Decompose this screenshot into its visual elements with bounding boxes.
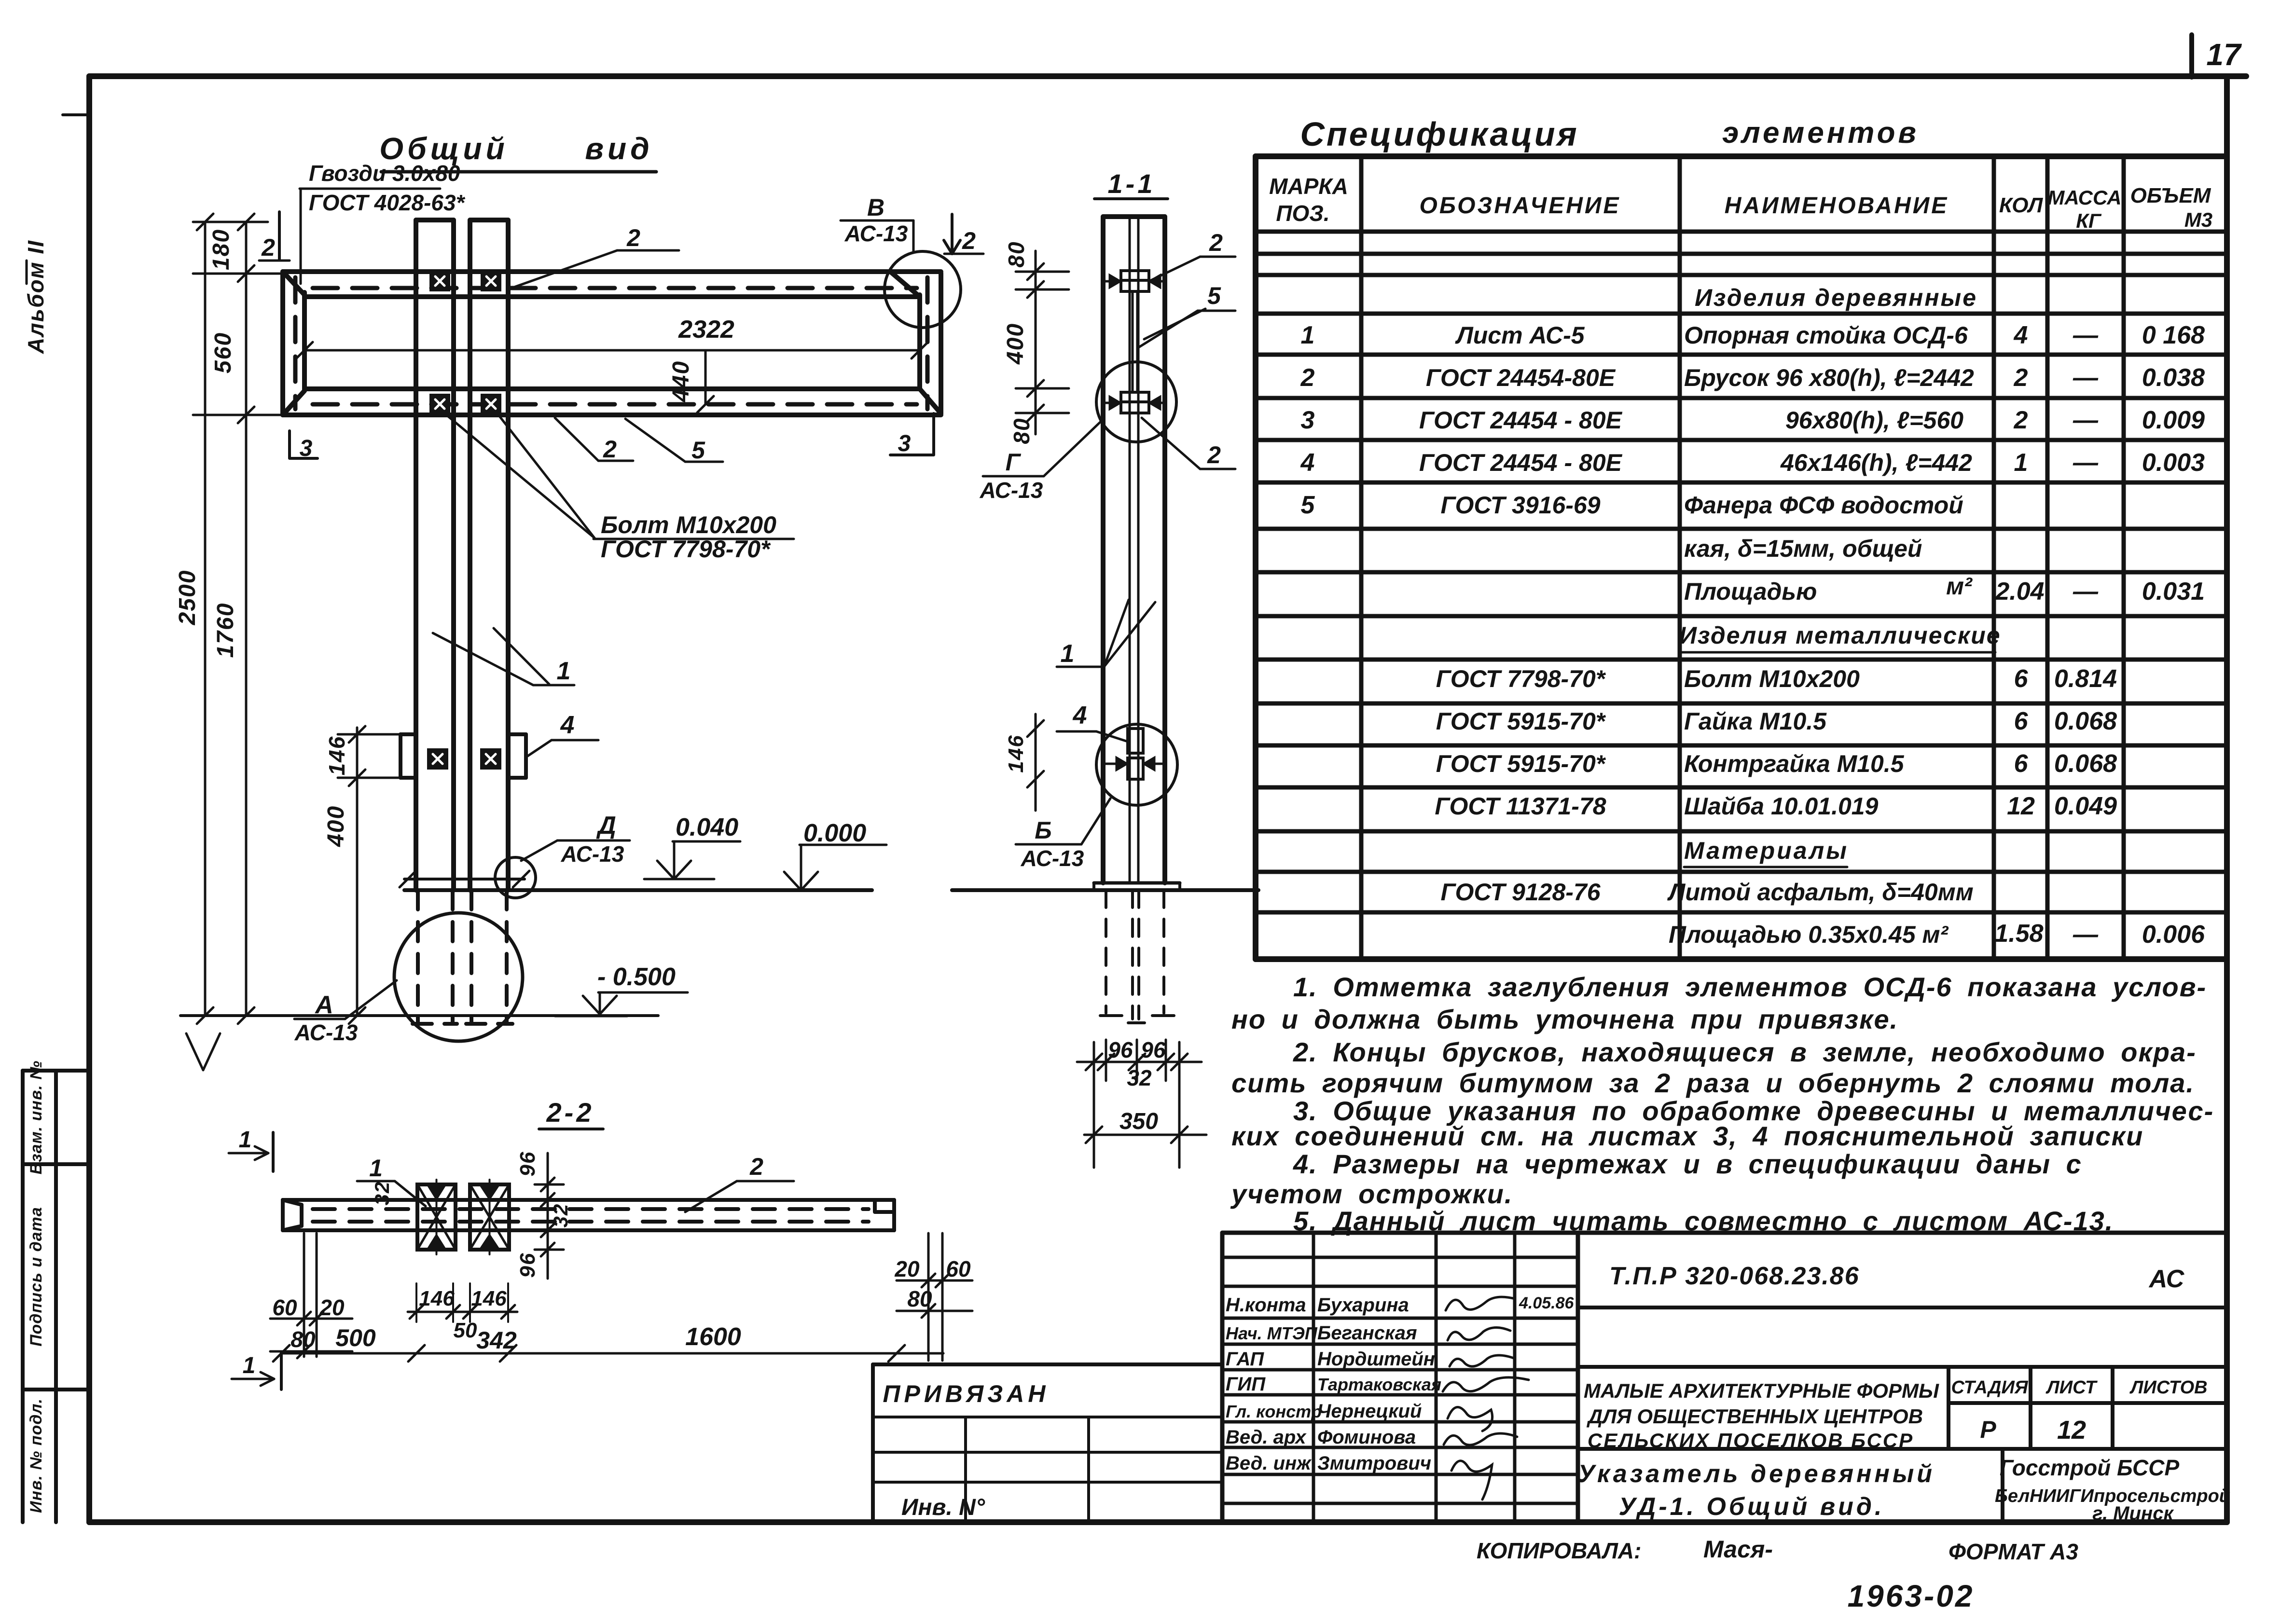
svg-text:6: 6: [2014, 665, 2029, 693]
svg-text:2: 2: [749, 1153, 763, 1180]
svg-text:—: —: [2073, 406, 2099, 434]
section mark 3 (bottom-left): [290, 431, 318, 458]
svg-text:ГОСТ 5915-70*: ГОСТ 5915-70*: [1436, 750, 1606, 777]
svg-text:АС-13: АС-13: [844, 221, 908, 246]
svg-text:32: 32: [549, 1203, 572, 1228]
svg-text:Изделия деревянные: Изделия деревянные: [1695, 284, 1977, 311]
middle bolt assembly: [1121, 392, 1149, 402]
svg-text:0.009: 0.009: [2142, 406, 2205, 434]
svg-text:ГОСТ 4028-63*: ГОСТ 4028-63*: [309, 190, 466, 215]
svg-text:ГОСТ 7798-70*: ГОСТ 7798-70*: [601, 536, 771, 563]
svg-text:ГИП: ГИП: [1226, 1374, 1266, 1395]
svg-text:20: 20: [894, 1256, 920, 1281]
svg-text:Н.конта: Н.конта: [1226, 1294, 1306, 1316]
svg-text:350: 350: [1119, 1109, 1158, 1134]
svg-text:Р: Р: [1980, 1416, 1996, 1443]
svg-text:20: 20: [319, 1295, 345, 1320]
svg-text:1760: 1760: [213, 603, 238, 658]
svg-text:80: 80: [290, 1327, 316, 1352]
base plate: [1094, 881, 1180, 885]
svg-text:Площадью 0.35х0.45 м²: Площадью 0.35х0.45 м²: [1669, 921, 1949, 948]
svg-text:Б: Б: [1035, 817, 1051, 844]
svg-text:МАЛЫЕ АРХИТЕКТУРНЫЕ ФОРМЫ: МАЛЫЕ АРХИТЕКТУРНЫЕ ФОРМЫ: [1584, 1379, 1939, 1402]
svg-text:АС: АС: [2148, 1265, 2185, 1293]
svg-text:СТАДИЯ: СТАДИЯ: [1951, 1377, 2028, 1398]
spec table grid: [1256, 156, 2227, 959]
svg-text:ОБОЗНАЧЕНИЕ: ОБОЗНАЧЕНИЕ: [1419, 193, 1620, 219]
svg-text:г. Минск: г. Минск: [2092, 1503, 2174, 1524]
section dim chain 80/400/80: [1016, 251, 1069, 434]
svg-text:Гл. констр: Гл. констр: [1226, 1402, 1322, 1421]
svg-text:0 168: 0 168: [2142, 321, 2205, 349]
svg-text:МАРКА: МАРКА: [1269, 174, 1348, 199]
svg-text:400: 400: [1003, 323, 1028, 365]
svg-text:ГОСТ 24454 - 80Е: ГОСТ 24454 - 80Е: [1419, 407, 1623, 434]
svg-text:4: 4: [560, 711, 575, 739]
svg-text:МАССА: МАССА: [2047, 186, 2121, 209]
svg-text:ких соединений см. на лист: ких соединений см. на листах 3, 4 поясни…: [1231, 1121, 2143, 1151]
svg-text:4: 4: [1073, 702, 1087, 729]
level line -0.500: [180, 1014, 658, 1017]
svg-text:2500: 2500: [175, 570, 200, 626]
svg-text:Вед. арх: Вед. арх: [1226, 1427, 1307, 1448]
svg-text:ГОСТ 5915-70*: ГОСТ 5915-70*: [1436, 708, 1606, 735]
svg-text:2: 2: [962, 227, 976, 254]
detail circle Б: [1096, 724, 1177, 805]
svg-text:м²: м²: [1946, 573, 1973, 600]
svg-text:АС-13: АС-13: [1021, 846, 1084, 871]
svg-text:3: 3: [1301, 406, 1315, 434]
svg-text:ГОСТ 7798-70*: ГОСТ 7798-70*: [1436, 665, 1606, 692]
svg-text:НАИМЕНОВАНИЕ: НАИМЕНОВАНИЕ: [1725, 193, 1949, 219]
svg-text:342: 342: [476, 1327, 517, 1354]
svg-text:учетом острожки.: учетом острожки.: [1230, 1179, 1513, 1209]
svg-text:60: 60: [946, 1256, 971, 1281]
svg-text:ГАП: ГАП: [1226, 1349, 1264, 1370]
ground line: [404, 888, 872, 892]
svg-text:96х80(h), ℓ=560: 96х80(h), ℓ=560: [1785, 407, 1963, 434]
sign board frame (позиция 2 bars): [283, 272, 941, 415]
2-2 vertical dims 96/32/96 right of posts: [535, 1153, 564, 1279]
svg-text:Взам. инв. №: Взам. инв. №: [27, 1060, 45, 1175]
dim line 2500: [193, 222, 283, 1016]
svg-text:0.003: 0.003: [2142, 449, 2205, 477]
svg-text:А: А: [314, 991, 333, 1019]
svg-text:Брусок 96 х80(h), ℓ=2442: Брусок 96 х80(h), ℓ=2442: [1684, 364, 1974, 391]
dim 146 on section: [1035, 714, 1037, 811]
svg-text:2322: 2322: [678, 316, 734, 344]
svg-text:17: 17: [2206, 37, 2242, 72]
svg-text:КОЛ: КОЛ: [1999, 193, 2043, 217]
svg-text:Инв. № подл.: Инв. № подл.: [27, 1398, 45, 1513]
svg-text:1: 1: [557, 657, 571, 685]
svg-text:1-1: 1-1: [1108, 168, 1156, 199]
svg-text:Чернецкий: Чернецкий: [1317, 1401, 1422, 1422]
svg-text:—: —: [2073, 578, 2099, 606]
svg-text:146: 146: [471, 1287, 507, 1310]
svg-text:ПОЗ.: ПОЗ.: [1276, 201, 1329, 226]
svg-text:Тартаковская: Тартаковская: [1317, 1375, 1441, 1394]
svg-text:32: 32: [371, 1181, 393, 1206]
svg-text:Нач. МТЭП: Нач. МТЭП: [1226, 1323, 1318, 1343]
привязан table: [873, 1364, 1222, 1522]
svg-text:ПРИВЯЗАН: ПРИВЯЗАН: [883, 1380, 1050, 1407]
detail circle В at board right end: [884, 251, 961, 328]
svg-text:96: 96: [516, 1151, 539, 1177]
svg-text:0.031: 0.031: [2142, 578, 2205, 606]
svg-text:—: —: [2073, 321, 2099, 349]
left margin stamp boxes: [23, 1071, 89, 1522]
svg-text:1: 1: [2014, 449, 2028, 477]
svg-text:КГ: КГ: [2076, 209, 2102, 232]
svg-text:2: 2: [1207, 441, 1221, 468]
svg-text:3: 3: [300, 436, 313, 461]
svg-text:ГОСТ 24454-80Е: ГОСТ 24454-80Е: [1426, 364, 1616, 391]
svg-text:2: 2: [1300, 364, 1315, 392]
svg-text:96: 96: [1108, 1037, 1133, 1062]
svg-text:0.814: 0.814: [2054, 665, 2117, 693]
svg-text:Д: Д: [596, 812, 616, 840]
batten поз.4: [401, 734, 526, 778]
svg-text:АС-13: АС-13: [294, 1020, 358, 1045]
svg-text:0.049: 0.049: [2054, 792, 2117, 820]
svg-text:1: 1: [239, 1127, 252, 1153]
svg-text:46х146(h), ℓ=442: 46х146(h), ℓ=442: [1780, 449, 1972, 476]
svg-text:Бухарина: Бухарина: [1317, 1294, 1409, 1316]
svg-text:4.05.86: 4.05.86: [1519, 1294, 1575, 1312]
svg-text:УД-1. Общий вид.: УД-1. Общий вид.: [1619, 1493, 1885, 1521]
svg-text:1. Отметка заглубления элемент: 1. Отметка заглубления элементов ОСД-6 п…: [1293, 972, 2207, 1002]
svg-text:Фанера ФСФ водостой: Фанера ФСФ водостой: [1684, 492, 1963, 519]
svg-text:элементов: элементов: [1722, 116, 1919, 150]
svg-text:Болт М10х200: Болт М10х200: [601, 511, 776, 538]
svg-text:4: 4: [2014, 321, 2028, 349]
section mark 2 (top-right, arrow down): [951, 214, 953, 253]
asphalt top line over posts: [404, 878, 525, 881]
svg-text:Изделия металлические: Изделия металлические: [1679, 622, 2001, 649]
svg-text:Вед. инж: Вед. инж: [1226, 1453, 1312, 1474]
section underground dashed: [1106, 890, 1164, 1019]
svg-text:Беганская: Беганская: [1317, 1322, 1417, 1344]
svg-text:кая, δ=15мм, общей: кая, δ=15мм, общей: [1684, 535, 1922, 562]
svg-text:0.038: 0.038: [2142, 364, 2205, 392]
svg-text:3: 3: [898, 431, 911, 456]
svg-text:Гайка М10.5: Гайка М10.5: [1684, 708, 1827, 735]
svg-text:СЕЛЬСКИХ ПОСЕЛКОВ БССР: СЕЛЬСКИХ ПОСЕЛКОВ БССР: [1588, 1429, 1914, 1452]
svg-text:2. Концы брусков, находящиеся: 2. Концы брусков, находящиеся в земле, н…: [1293, 1037, 2197, 1067]
svg-text:Фоминова: Фоминова: [1317, 1427, 1416, 1448]
svg-text:Инв. N°: Инв. N°: [901, 1495, 985, 1520]
svg-text:1: 1: [243, 1353, 256, 1378]
top bolt assembly: [1121, 271, 1149, 280]
batten bolts: [428, 750, 447, 768]
svg-text:Контргайка М10.5: Контргайка М10.5: [1684, 750, 1905, 777]
section marks 1 at left of 2-2: [272, 1132, 275, 1171]
detail circle Д: [495, 857, 536, 898]
svg-text:80: 80: [907, 1286, 932, 1311]
svg-text:1600: 1600: [685, 1323, 741, 1351]
posts (стойки поз.1): [416, 220, 508, 890]
svg-text:Мася-: Мася-: [1703, 1536, 1773, 1563]
svg-text:0.006: 0.006: [2142, 921, 2205, 949]
svg-text:50: 50: [454, 1319, 477, 1342]
svg-text:6: 6: [2014, 750, 2029, 778]
2-2 right end dims 20/60/80: [897, 1233, 972, 1361]
svg-text:ГОСТ 11371-78: ГОСТ 11371-78: [1435, 793, 1606, 820]
svg-text:6: 6: [2014, 707, 2029, 735]
svg-text:12: 12: [2007, 792, 2035, 820]
2-2 bottom dim line 500 342 1600: [281, 1352, 943, 1355]
notes text block: [1230, 972, 2214, 1236]
svg-text:4: 4: [1300, 449, 1315, 477]
svg-text:М3: М3: [2184, 208, 2212, 231]
svg-text:1: 1: [1301, 321, 1315, 349]
svg-text:- 0.500: - 0.500: [597, 963, 676, 991]
svg-text:146: 146: [1004, 734, 1028, 772]
svg-text:146: 146: [324, 736, 349, 776]
svg-text:Материалы: Материалы: [1684, 837, 1849, 864]
signatures squiggles: [1443, 1297, 1529, 1500]
section mark 3 (bottom-right): [890, 413, 934, 455]
svg-text:Альбом II: Альбом II: [23, 240, 48, 354]
svg-text:80: 80: [1009, 417, 1034, 444]
svg-text:0.068: 0.068: [2054, 750, 2117, 778]
svg-text:1.58: 1.58: [1994, 920, 2043, 948]
svg-text:4. Размеры на чертежах и: 4. Размеры на чертежах и в спецификации …: [1293, 1149, 2082, 1179]
svg-text:ГОСТ 24454 - 80Е: ГОСТ 24454 - 80Е: [1419, 449, 1623, 476]
svg-text:КОПИРОВАЛА:: КОПИРОВАЛА:: [1477, 1538, 1641, 1563]
svg-text:Г: Г: [1006, 449, 1022, 476]
svg-text:2: 2: [2014, 364, 2028, 392]
svg-text:180: 180: [208, 229, 234, 270]
signature table texts: [1226, 1294, 1441, 1474]
svg-text:2-2: 2-2: [546, 1097, 594, 1128]
svg-text:0.068: 0.068: [2054, 707, 2117, 735]
section 1-1 column: [1103, 217, 1165, 883]
svg-text:но и должна быть уточнена пр: но и должна быть уточнена при привязке.: [1231, 1004, 1898, 1034]
2-2 left end dims 60/20/80: [270, 1233, 352, 1357]
svg-text:В: В: [867, 194, 884, 221]
svg-text:32: 32: [1127, 1065, 1152, 1090]
2-2 dims 146 146: [408, 1311, 517, 1313]
svg-text:1: 1: [1061, 640, 1075, 668]
batten section blocks: [1128, 729, 1143, 753]
svg-text:ОБЪЕМ: ОБЪЕМ: [2130, 184, 2211, 207]
svg-text:—: —: [2073, 921, 2099, 949]
svg-text:5: 5: [1207, 282, 1221, 309]
svg-text:Гвозди 3.0х80: Гвозди 3.0х80: [309, 161, 460, 186]
svg-text:Литой асфальт, δ=40мм: Литой асфальт, δ=40мм: [1667, 879, 1974, 906]
dim 440: [705, 350, 707, 404]
svg-text:2: 2: [626, 224, 640, 251]
svg-text:60: 60: [272, 1295, 297, 1320]
bolts on board: [431, 272, 449, 290]
svg-text:1963-02: 1963-02: [1848, 1579, 1975, 1613]
svg-text:96: 96: [1141, 1037, 1166, 1062]
page number box tick: [2189, 35, 2194, 77]
dim line 146/400: [338, 728, 401, 1016]
svg-text:—: —: [2073, 364, 2099, 392]
svg-text:0.040: 0.040: [676, 813, 738, 841]
svg-text:Площадью: Площадью: [1684, 578, 1817, 605]
svg-text:5: 5: [691, 437, 705, 464]
posts underground (dashed): [413, 890, 512, 1024]
svg-text:ЛИСТОВ: ЛИСТОВ: [2129, 1377, 2207, 1398]
svg-text:2: 2: [2014, 406, 2028, 434]
svg-text:96: 96: [516, 1252, 539, 1278]
svg-text:Болт М10х200: Болт М10х200: [1684, 665, 1860, 692]
svg-text:Змитрович: Змитрович: [1317, 1453, 1431, 1474]
svg-text:АС-13: АС-13: [980, 478, 1043, 503]
svg-text:0.000: 0.000: [803, 819, 866, 847]
svg-text:12: 12: [2057, 1416, 2086, 1445]
svg-text:ГОСТ 3916-69: ГОСТ 3916-69: [1440, 492, 1600, 519]
svg-text:АС-13: АС-13: [561, 841, 624, 867]
svg-text:Опорная стойка ОСД-6: Опорная стойка ОСД-6: [1684, 322, 1968, 349]
svg-text:вид: вид: [585, 131, 653, 166]
svg-text:Госстрой БССР: Госстрой БССР: [2000, 1455, 2180, 1480]
svg-text:ГОСТ 9128-76: ГОСТ 9128-76: [1440, 879, 1601, 906]
svg-text:80: 80: [1004, 241, 1029, 267]
svg-text:ФОРМАТ А3: ФОРМАТ А3: [1948, 1539, 2078, 1564]
svg-text:560: 560: [210, 332, 236, 373]
2-2 bar (brusok seen from top): [283, 1200, 894, 1230]
svg-text:—: —: [2073, 449, 2099, 477]
svg-text:2: 2: [603, 436, 617, 463]
svg-text:Шайба 10.01.019: Шайба 10.01.019: [1684, 793, 1879, 820]
2-2 post cross-sections with hatch: [417, 1184, 456, 1250]
svg-text:1: 1: [369, 1155, 383, 1182]
svg-text:2: 2: [261, 234, 275, 261]
svg-text:Подпись и дата: Подпись и дата: [27, 1207, 45, 1347]
svg-text:500: 500: [335, 1324, 376, 1351]
svg-text:ЛИСТ: ЛИСТ: [2045, 1377, 2098, 1398]
2-2 bar dashed centerlines: [313, 1209, 869, 1222]
svg-text:Лист АС-5: Лист АС-5: [1455, 322, 1585, 349]
svg-text:сить горячим битумом за 2 раза: сить горячим битумом за 2 раза и обернут…: [1231, 1068, 2195, 1098]
title block: right part lines: [1578, 1307, 2227, 1522]
board dashed centerlines: [295, 277, 927, 409]
svg-text:146: 146: [419, 1287, 455, 1310]
svg-text:2: 2: [1209, 229, 1223, 256]
svg-text:Указатель деревянный: Указатель деревянный: [1578, 1460, 1935, 1488]
svg-text:Нордштейн: Нордштейн: [1317, 1349, 1435, 1370]
svg-text:Т.П.Р 320-068.23.86: Т.П.Р 320-068.23.86: [1609, 1262, 1860, 1290]
small V arrow at left of level line: [186, 1033, 220, 1070]
svg-text:440: 440: [668, 360, 694, 402]
svg-text:Спецификация: Спецификация: [1300, 115, 1578, 153]
dim 2322: [304, 349, 920, 352]
detail circle А: [394, 913, 523, 1041]
title block: signature table: [1222, 1233, 2227, 1522]
svg-text:2.04: 2.04: [1995, 578, 2044, 606]
svg-text:400: 400: [323, 805, 349, 847]
svg-text:5: 5: [1301, 491, 1315, 519]
fold mark top-left: [63, 113, 89, 116]
section bottom dims 96,96 / 32 / 350: [1077, 1040, 1206, 1168]
detail circle Г: [1096, 362, 1176, 442]
svg-text:ДЛЯ ОБЩЕСТВЕННЫХ ЦЕНТРОВ: ДЛЯ ОБЩЕСТВЕННЫХ ЦЕНТРОВ: [1587, 1405, 1923, 1428]
